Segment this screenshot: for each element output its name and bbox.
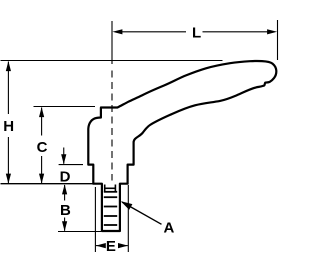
svg-text:H: H bbox=[3, 118, 14, 135]
thread top box right vertical bbox=[114, 185, 116, 192]
thread line 3 bbox=[104, 206, 117, 208]
dimension B bbox=[60, 184, 71, 231]
svg-text:B: B bbox=[60, 202, 71, 219]
lever handle and hub outline bbox=[88, 61, 276, 231]
wire E left extension line bbox=[94, 187, 96, 252]
wire L left extension line bbox=[111, 21, 113, 64]
wire E right extension line bbox=[127, 185, 129, 252]
svg-text:A: A bbox=[163, 219, 174, 236]
threaded stud details bbox=[104, 185, 117, 226]
svg-text:E: E bbox=[106, 238, 116, 255]
thread line 5 bbox=[104, 224, 117, 226]
dimension L bbox=[112, 25, 277, 42]
wire centerline dashed bbox=[111, 66, 113, 181]
wire D top extension line (shoulder) bbox=[59, 164, 83, 166]
wire bottom long extension line (H/C bottom) bbox=[1, 183, 94, 185]
thread line 4 bbox=[104, 215, 117, 217]
thread top box mid line bbox=[105, 187, 116, 189]
wire C top extension line bbox=[34, 106, 96, 108]
dimension C bbox=[37, 107, 48, 184]
wire H top extension line bbox=[1, 60, 223, 62]
dimension E bbox=[96, 238, 128, 255]
wire B bottom extension line bbox=[58, 231, 101, 233]
svg-text:C: C bbox=[37, 139, 48, 156]
leader A bbox=[121, 201, 175, 236]
thread line 2 bbox=[104, 196, 117, 198]
dimension D bbox=[60, 148, 71, 186]
wire L right extension line bbox=[277, 20, 279, 60]
dimension H bbox=[3, 61, 14, 184]
thread line 1 bbox=[104, 191, 117, 193]
svg-text:L: L bbox=[192, 25, 201, 42]
thread top box left vertical bbox=[104, 185, 106, 192]
